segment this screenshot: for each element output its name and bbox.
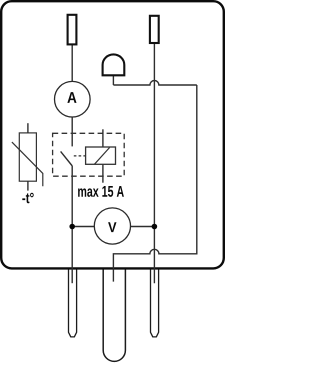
switch blade (61, 151, 73, 166)
thermistor diagonal (12, 142, 43, 186)
voltmeter label V (108, 222, 116, 232)
thermistor body (19, 133, 36, 181)
wire: bottom bus right segment (voltmeter to right junction) (130, 226, 154, 228)
relay case outline (1, 1, 224, 268)
relay dashed enclosure (53, 133, 125, 176)
thermistor label -t° (22, 193, 33, 203)
coil diagonal (94, 148, 109, 165)
ammeter A (55, 81, 91, 117)
voltmeter V (94, 208, 130, 244)
buzzer dome (103, 54, 125, 75)
wire: bottom bus left segment (junction to voltmeter) (72, 226, 94, 228)
junction left (69, 224, 75, 230)
fuse F2 (150, 16, 159, 43)
wire: buzzer stub down (112, 75, 114, 85)
thermistor top stub (27, 123, 29, 133)
wire: switch bottom to left junction, down into pin 1 (71, 166, 73, 283)
switch link (dotted) (74, 155, 86, 157)
fuse F1 (68, 15, 77, 45)
junction right (152, 224, 158, 230)
relay coil K1 (86, 147, 116, 164)
pin 1 (left prong) (69, 268, 77, 337)
wire: ammeter to switch fixed contact (71, 117, 73, 146)
coil top stub (102, 129, 104, 147)
wire: right vertical from fuse F2 down into pin 3 (153, 43, 155, 283)
pin 3 (right prong) (151, 268, 159, 337)
wire: fuse F1 to ammeter (71, 45, 73, 82)
wire: far-right vertical, lower horizontal with hop, down into pin 2 (113, 85, 196, 282)
ammeter label A (67, 92, 76, 103)
thermistor bottom stub (27, 181, 29, 190)
wire: top horizontal with hop over right vertical (113, 81, 196, 86)
pin 2 (middle prong) (103, 268, 125, 361)
coil bottom stub (102, 164, 104, 182)
label max 15 A (78, 186, 124, 197)
